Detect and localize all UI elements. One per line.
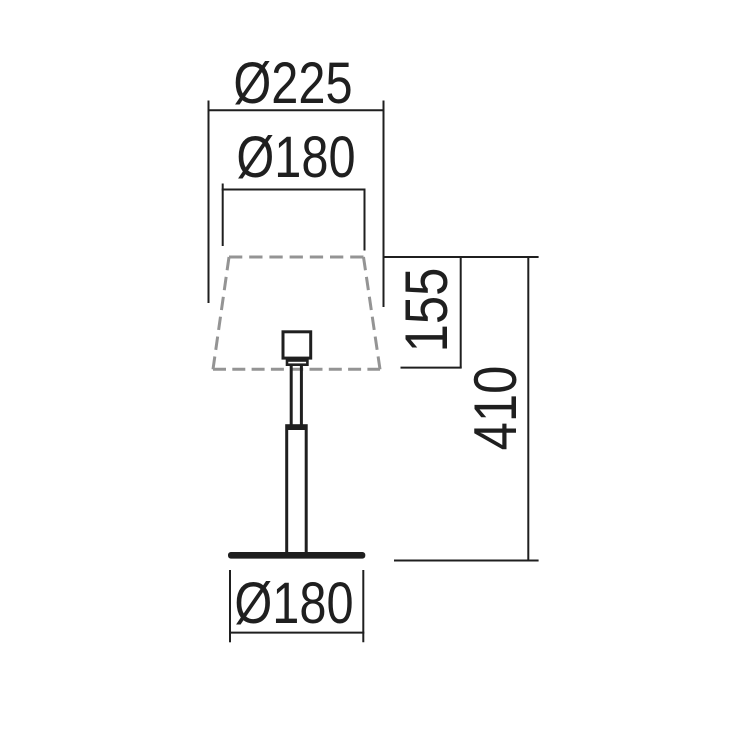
- dim Ø180 top extension line right: [364, 189, 366, 251]
- dim 410 dimension line: [527, 256, 529, 561]
- label Ø225: [233, 55, 352, 113]
- shade dashed outline right slant: [364, 257, 381, 369]
- stem upper thin rod right line: [300, 366, 303, 426]
- shade dashed outline top edge: [229, 256, 364, 259]
- dim Ø180 top dimension line: [222, 189, 366, 191]
- stem main tube right line: [305, 430, 308, 553]
- stem collar cap: [285, 424, 308, 430]
- dim 155/410 top extension line: [384, 256, 539, 258]
- dim Ø180 top extension line left: [222, 184, 224, 247]
- dim 155 bottom extension line: [401, 367, 462, 369]
- dim Ø180 bottom extension line right: [362, 570, 364, 642]
- stem upper thin rod left line: [290, 366, 293, 426]
- shade dashed outline bottom edge: [213, 368, 380, 371]
- lamp base plate: [228, 552, 365, 559]
- dim 155 dimension line: [460, 256, 462, 368]
- lamp socket body: [283, 332, 311, 358]
- label 155: [396, 267, 457, 352]
- lamp socket neck: [287, 361, 307, 365]
- stem main tube left line: [285, 430, 288, 553]
- dim Ø180 bottom dimension line: [229, 632, 364, 634]
- dim 410 bottom extension line: [394, 560, 539, 562]
- dim Ø225 extension line right: [383, 101, 385, 308]
- dim Ø180 bottom extension line left: [229, 570, 231, 642]
- shade dashed outline left slant: [213, 257, 229, 369]
- dim Ø225 extension line left: [208, 101, 210, 304]
- label 410: [465, 365, 526, 450]
- label Ø180 top: [236, 129, 355, 187]
- dim Ø225 dimension line: [208, 109, 385, 111]
- label Ø180 bottom: [234, 575, 353, 633]
